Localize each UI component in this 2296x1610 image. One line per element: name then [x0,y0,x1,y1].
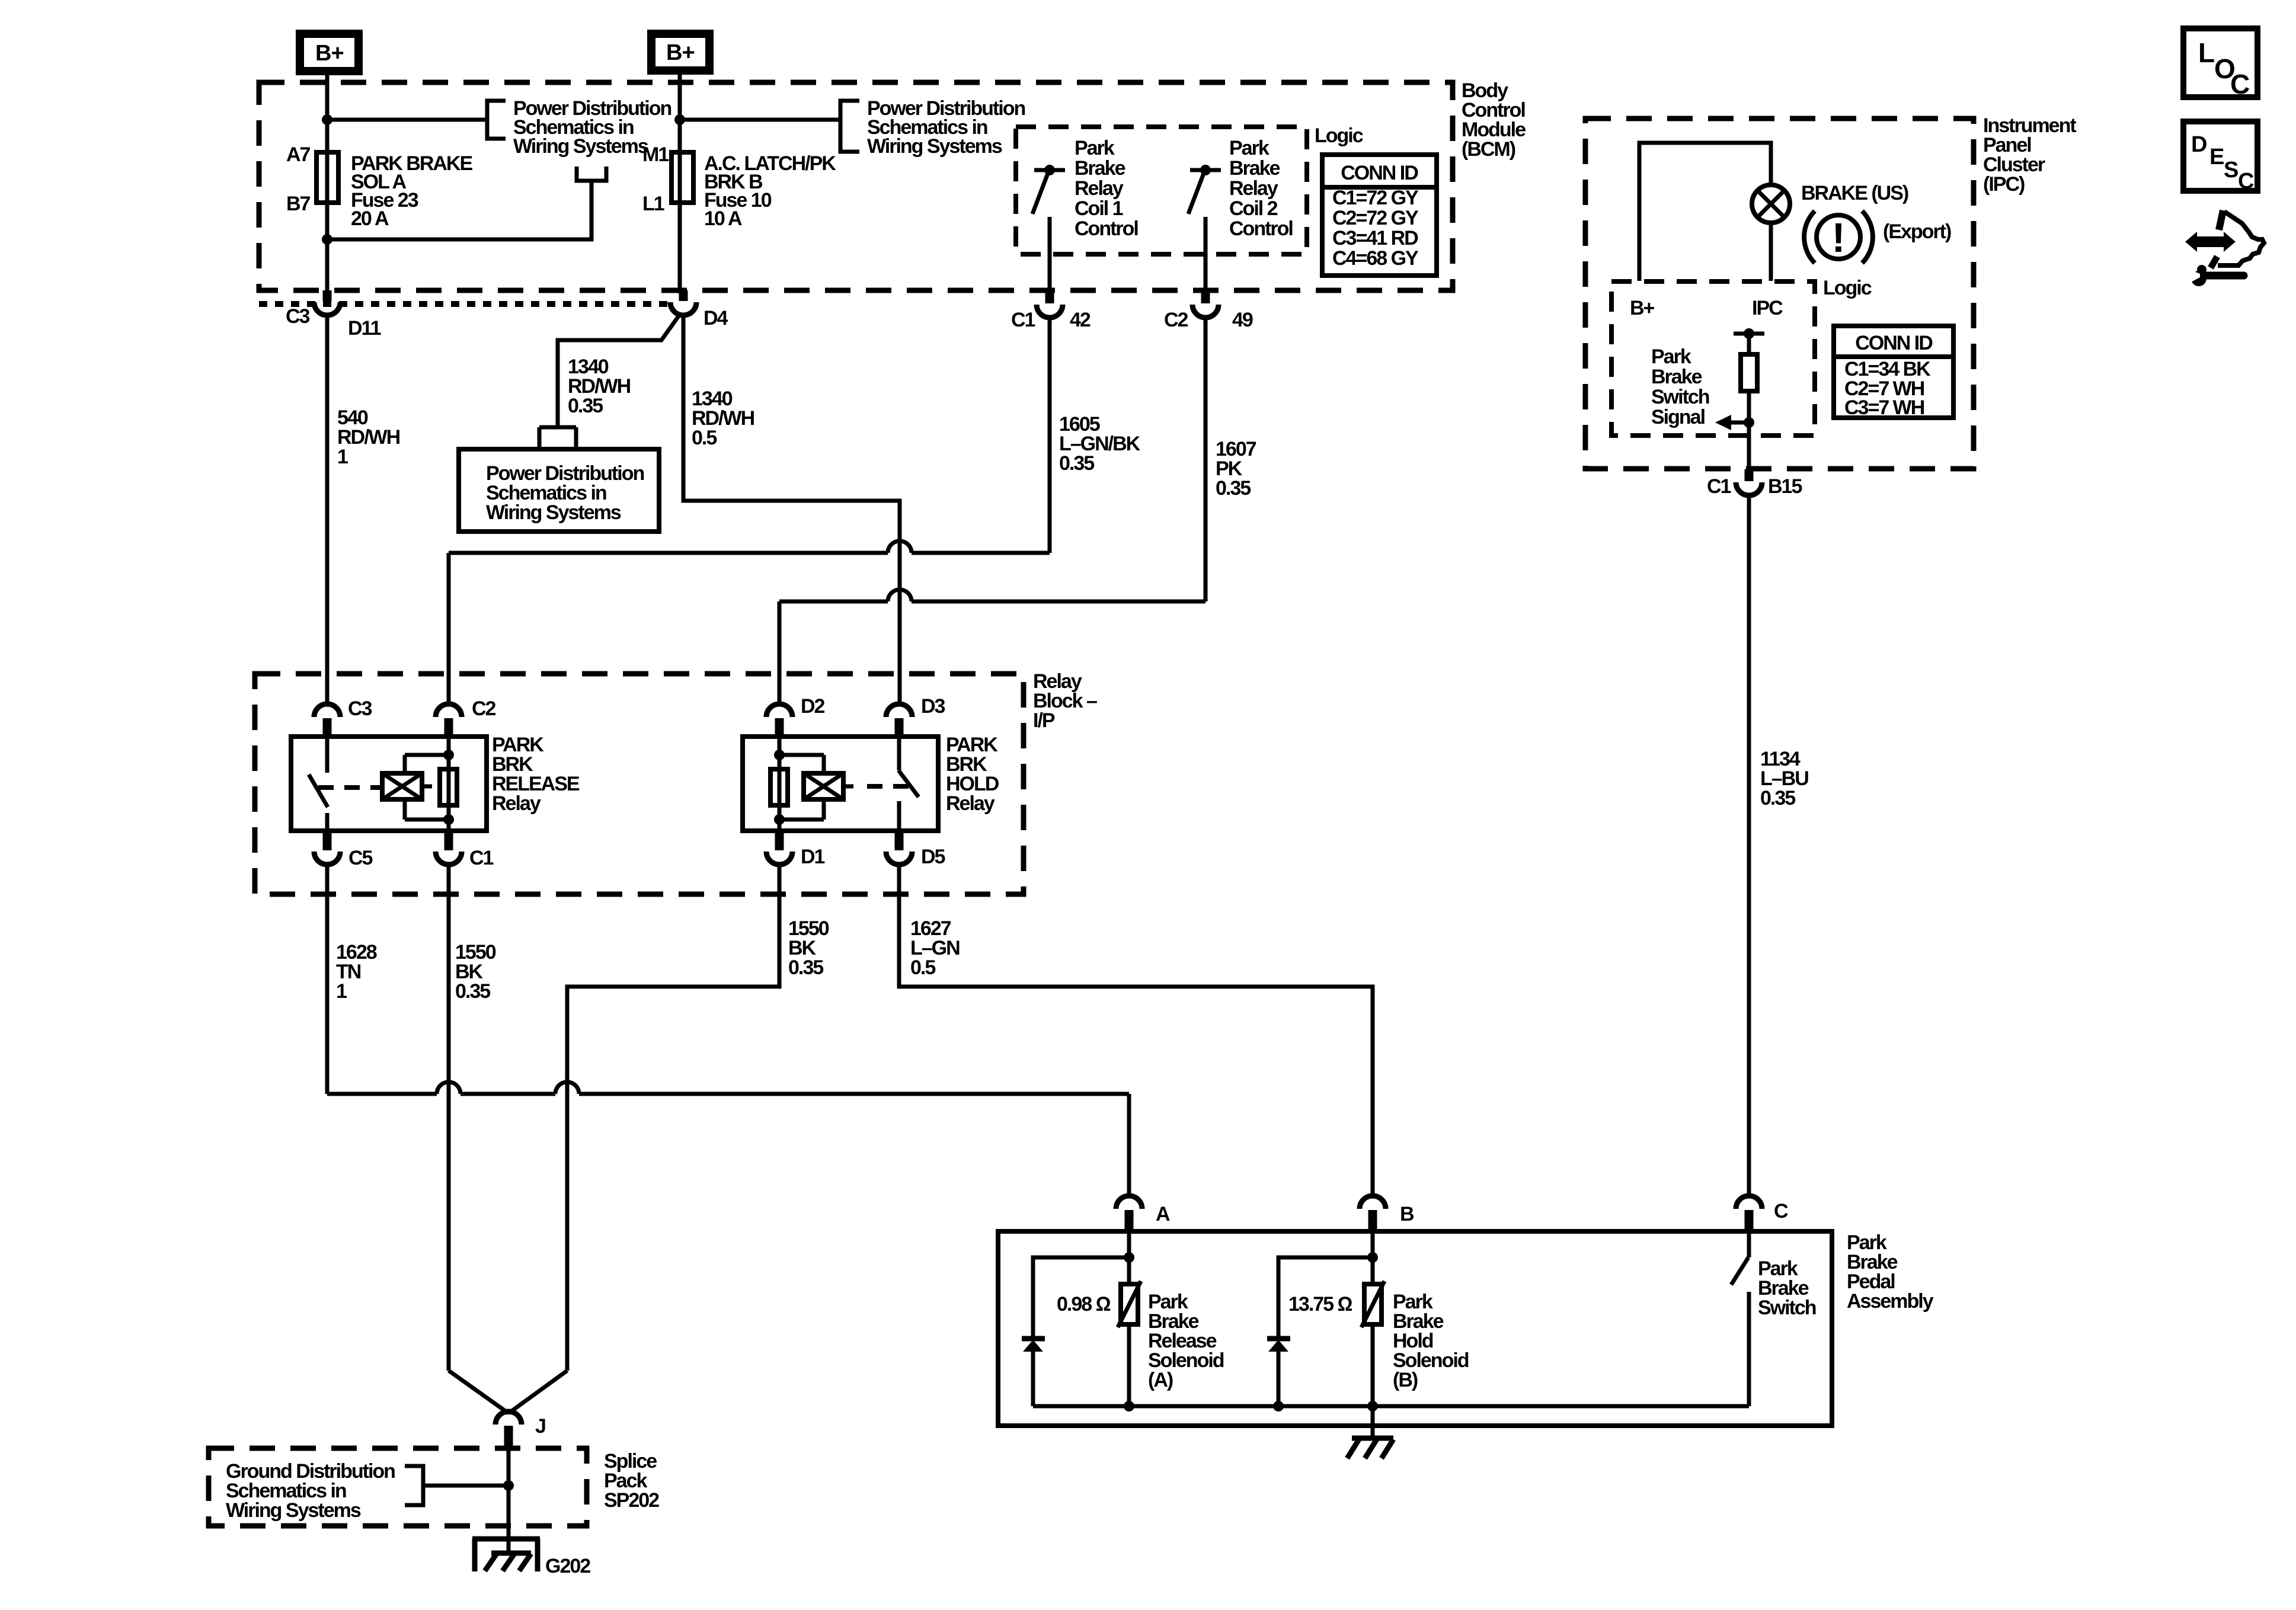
release relay resistor [440,737,457,831]
node: fuse23 input junction [322,114,332,125]
connector C2/49 at BCM [1164,290,1253,331]
svg-text:J: J [535,1415,545,1438]
label wire 1607 [1216,438,1256,500]
svg-text:L: L [2198,37,2215,68]
Park Brake Pedal Assembly box [998,1231,1832,1426]
connector A at pedal assembly [1116,1196,1170,1231]
svg-text:Park: Park [1075,137,1115,159]
svg-text:Brake: Brake [1229,157,1280,180]
svg-text:0.35: 0.35 [1216,477,1251,500]
svg-text:42: 42 [1070,309,1091,331]
IPC CONN ID table [1834,326,1953,419]
label release solenoid [1148,1291,1224,1391]
svg-text:(BCM): (BCM) [1462,138,1515,161]
svg-text:Relay: Relay [946,792,995,815]
Splice Pack SP202 dashed box [209,1448,587,1526]
svg-text:BRAKE (US): BRAKE (US) [1801,182,1908,204]
svg-text:B7: B7 [286,193,311,215]
label wire 1134 [1760,748,1808,809]
switch: park brake relay coil 2 driver [1188,165,1221,293]
svg-text:Park: Park [1651,345,1691,368]
release relay actuation dashed link [318,785,382,790]
Relay Block I/P dashed box [255,674,1024,894]
svg-text:(IPC): (IPC) [1983,173,2025,196]
label wire 1605 [1059,413,1141,475]
connector D4 at BCM [670,290,728,329]
release relay coil (solenoid box) [382,755,449,820]
connector D5 at hold relay [886,831,945,868]
wire 1607 PK from BCM C2/49 to relay D2 [779,318,1205,704]
svg-text:Coil 2: Coil 2 [1229,197,1278,220]
connector B at pedal assembly [1360,1196,1414,1231]
fuse F10 A.C. LATCH/PK BRK B [671,152,693,203]
svg-text:C3: C3 [348,697,372,720]
svg-text:G202: G202 [545,1555,590,1577]
label ground distribution [226,1460,395,1522]
fuse F23 PARK BRAKE SOL A [316,152,338,203]
node A inside pedal box [1127,1231,1131,1284]
node: fuse23 output junction [322,234,332,245]
label BCM [1462,79,1526,161]
connector D3 at hold relay [886,695,945,736]
svg-text:0.35: 0.35 [788,956,823,979]
wire B+ left feed down to BCM [325,75,330,293]
Body Control Module (BCM) dashed box [259,82,1453,290]
label hold relay [946,734,999,815]
bracket power distribution ref (left) [487,101,506,139]
svg-text:C2=72 GY: C2=72 GY [1332,207,1419,229]
connector C3 at release relay [314,697,372,736]
svg-text:Coil 1: Coil 1 [1075,197,1123,220]
svg-text:Relay: Relay [1075,177,1124,200]
svg-text:CONN ID: CONN ID [1855,332,1933,354]
svg-text:Relay: Relay [492,792,541,815]
hold relay actuation dashed link [867,784,909,789]
label wire 540 [337,406,400,468]
svg-text:SP202: SP202 [604,1489,659,1512]
svg-text:Control: Control [1229,217,1293,240]
connector C at pedal assembly [1736,1196,1788,1231]
svg-text:Logic: Logic [1823,277,1872,299]
svg-text:0.98 Ω: 0.98 Ω [1057,1293,1111,1315]
battery feed B+ (left) [300,34,359,71]
hold relay coil (solenoid box) [779,755,853,820]
harness connector dotted line at BCM [259,301,668,307]
svg-text:10 A: 10 A [704,207,742,230]
svg-text:Relay: Relay [1229,177,1278,200]
label park brake switch signal [1651,345,1709,428]
svg-text:0.35: 0.35 [1760,787,1795,809]
connector C1 at release relay [436,831,494,869]
connector C2 at release relay [436,697,496,736]
svg-text:Switch: Switch [1758,1297,1816,1319]
svg-text:C: C [2230,69,2250,100]
svg-text:C1: C1 [1707,475,1731,498]
label hold solenoid [1393,1291,1469,1391]
svg-text:IPC: IPC [1752,297,1783,319]
svg-text:B15: B15 [1768,475,1802,498]
label wire 1340 0.35 [568,356,631,417]
LOC reference box [2183,28,2257,100]
resistor: park brake release solenoid 0.98 ohm [1118,1281,1141,1406]
bracket into power distribution box [539,425,576,430]
label relay block [1033,670,1097,732]
label splice pack [604,1450,659,1512]
svg-text:0.5: 0.5 [910,956,935,979]
svg-text:(Export): (Export) [1883,220,1951,243]
power distribution schematics box (middle) [459,449,659,532]
svg-text:0.35: 0.35 [455,980,490,1003]
svg-text:(B): (B) [1393,1369,1418,1391]
label IPC [1983,114,2076,196]
hold relay switch [898,737,919,831]
resistor inside IPC logic [1734,328,1764,469]
label wire 1550 (right) [788,917,829,979]
connector C5 at release relay [314,831,373,869]
indicator lamp BRAKE (US) [1752,185,1790,223]
svg-text:1: 1 [337,446,348,468]
wire 1628 TN from relay C5 to pedal connector A [327,865,1129,1197]
connector C1/42 at BCM [1011,290,1091,331]
wire to power distribution reference (left) [327,118,487,122]
svg-text:D: D [2191,132,2207,157]
svg-text:C3: C3 [286,305,310,328]
svg-text:I/P: I/P [1033,709,1055,732]
svg-text:C: C [2238,169,2254,194]
svg-text:B+: B+ [315,41,344,66]
svg-text:S: S [2224,158,2239,183]
BCM CONN ID table [1322,155,1437,276]
svg-text:0.35: 0.35 [1059,452,1094,475]
ground rail inside pedal box [1033,1401,1749,1411]
svg-text:D3: D3 [921,695,945,718]
svg-text:20 A: 20 A [351,207,389,230]
switch: park brake relay coil 1 driver [1032,165,1065,293]
wire B+ right feed down [678,75,682,293]
svg-text:C1: C1 [1011,309,1035,331]
svg-text:C4=68 GY: C4=68 GY [1332,247,1419,270]
svg-text:Wiring Systems: Wiring Systems [867,135,1002,158]
relay K: PARK BRK HOLD relay box [743,737,938,831]
svg-text:C1: C1 [469,847,494,869]
wire 1340 RD/WH 0.5 from D4 to relay D3 [683,317,900,704]
wire 1550 BK from relay C1 to splice [447,865,451,1371]
svg-text:B+: B+ [1630,297,1655,319]
ground (pedal assembly) [1347,1438,1393,1458]
svg-text:!: ! [1831,215,1845,261]
svg-text:Switch: Switch [1651,386,1709,408]
wire 1550 BK from relay D1 to splice [567,865,779,1371]
label wire 1628 [336,941,377,1003]
label pedal assembly [1847,1231,1934,1313]
BCM logic dashed box [1016,127,1307,254]
wire 1605 L-GN/BK from BCM C1/42 to relay C2 [449,318,1050,704]
IPC logic dashed box [1611,281,1815,436]
svg-text:Park: Park [1229,137,1269,159]
indicator brake warning symbol (Export) [1804,211,1873,263]
svg-text:Assembly: Assembly [1847,1290,1934,1313]
svg-text:0.5: 0.5 [692,427,717,449]
label park brake switch [1758,1257,1816,1319]
wire B+ to lamp inside IPC [1639,143,1771,281]
svg-text:Wiring Systems: Wiring Systems [486,501,621,524]
splice wire down to ground [503,1448,514,1554]
release relay switch [309,737,328,831]
connector D1 at hold relay [766,831,825,868]
node B inside pedal box [1371,1231,1375,1284]
svg-text:B+: B+ [666,40,695,65]
label wire 1550 (left) [455,941,496,1003]
bracket below Wiring Systems text [577,167,606,181]
park brake switch signal arrow [1715,415,1754,430]
svg-text:M1: M1 [642,143,669,166]
label release relay [492,734,580,815]
svg-text:C5: C5 [348,847,373,869]
battery feed B+ (right) [651,34,709,71]
svg-text:A7: A7 [286,143,311,166]
svg-text:CONN ID: CONN ID [1341,162,1418,184]
wire 1340 RD/WH 0.35 branch from D4 to power distribution [558,315,679,426]
label wire 1340 0.5 [692,388,754,449]
svg-text:D2: D2 [801,695,825,718]
ground G202 [472,1539,590,1577]
wire 540 RD/WH from C3/D11 to relay C3 [325,317,330,704]
wire merge into splice J [449,1371,567,1413]
svg-text:L1: L1 [642,193,664,215]
wire from hold solenoid node to chassis ground [1371,1406,1375,1438]
svg-text:0.35: 0.35 [568,395,603,417]
label fuse 23 [351,152,472,230]
label coil 2 control [1229,137,1293,240]
wire to power distribution reference (right) [680,118,840,122]
wire 1627 L-GN from relay D5 to pedal connector B [899,865,1373,1197]
svg-text:49: 49 [1232,309,1253,331]
svg-text:Wiring Systems: Wiring Systems [226,1499,361,1522]
svg-text:Wiring Systems: Wiring Systems [513,135,648,158]
DESC reference box [2183,121,2257,194]
label power distribution schematics (right) [867,97,1025,158]
connector J at splice pack [495,1411,545,1448]
switch: park brake switch [1731,1231,1749,1406]
svg-text:D1: D1 [801,846,825,868]
svg-text:13.75 Ω: 13.75 Ω [1288,1293,1352,1315]
svg-text:C2: C2 [472,697,496,720]
svg-text:1: 1 [336,980,347,1003]
bracket power distribution ref (right) [840,101,859,152]
wire lamp to logic [1769,223,1773,281]
svg-text:Control: Control [1075,217,1138,240]
connector C1/B15 at IPC [1707,469,1802,498]
svg-text:Brake: Brake [1651,366,1702,388]
svg-text:Logic: Logic [1315,124,1363,147]
bracket ground distribution ref [405,1466,423,1505]
resistor: park brake hold solenoid 13.75 ohm [1361,1281,1384,1406]
svg-text:B: B [1400,1203,1414,1225]
node: fuse10 input junction [674,114,685,125]
diode D (hold solenoid clamp) [1267,1257,1373,1406]
diode D (release solenoid clamp) [1022,1257,1129,1406]
connector D2 at hold relay [766,695,825,736]
relay K: PARK BRK RELEASE relay box [291,737,487,831]
svg-text:D5: D5 [921,846,945,868]
Instrument Panel Cluster dashed box [1585,119,1974,469]
schematic navigation icon (double arrow, connector outline, wrench) [2185,210,2264,286]
wire from bracket down to fuse23 output node [327,181,591,239]
svg-text:C3=7 WH: C3=7 WH [1844,396,1924,419]
svg-text:A: A [1156,1203,1170,1225]
hold relay resistor [770,737,788,831]
svg-text:Signal: Signal [1651,406,1705,428]
svg-text:(A): (A) [1148,1369,1173,1391]
connector C3/D11 at BCM [286,290,381,340]
wire 1134 L-BU from IPC to pedal connector C [1747,496,1751,1197]
svg-text:D11: D11 [348,317,381,340]
label power distribution schematics (left) [513,97,671,158]
label coil 1 control [1075,137,1138,240]
svg-text:C2: C2 [1164,309,1188,331]
svg-text:C3=41 RD: C3=41 RD [1332,227,1418,249]
svg-text:C: C [1774,1200,1788,1222]
svg-text:Brake: Brake [1075,157,1125,180]
label fuse 10 [704,152,836,230]
svg-text:E: E [2209,145,2224,169]
svg-text:D4: D4 [703,307,728,329]
label wire 1627 [910,917,960,979]
svg-text:C1=72 GY: C1=72 GY [1332,187,1419,209]
wire bracket to splice node [423,1484,509,1488]
